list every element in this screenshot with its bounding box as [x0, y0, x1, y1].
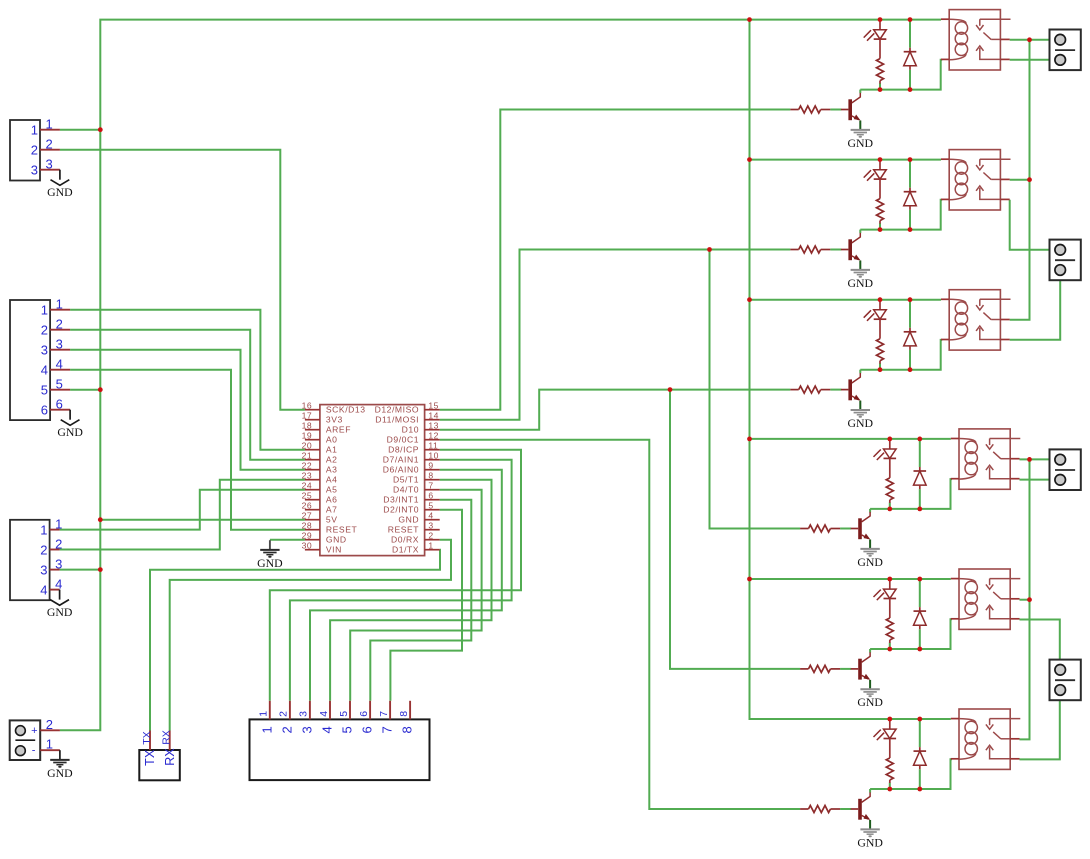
node K5 common: [1027, 597, 1032, 602]
svg-text:2: 2: [31, 143, 38, 158]
wire D9/0C1 to ch6 base row: [440, 440, 800, 809]
relay K5: [959, 569, 1010, 629]
svg-text:D7/AIN1: D7/AIN1: [383, 455, 419, 465]
connector J1 (3-pin header): [10, 120, 40, 181]
wire ch1 diode column bottom: [909, 70, 911, 90]
svg-text:4: 4: [55, 576, 62, 591]
svg-text:14: 14: [428, 410, 439, 420]
U1 right pin 14 stub: [425, 419, 440, 421]
J4 pin 3 stub: [309, 701, 311, 720]
wire ch1 emitter to ground: [859, 121, 861, 130]
wire ch6 diode column top: [919, 719, 921, 747]
X1 ground stem: [59, 750, 61, 760]
svg-text:GND: GND: [857, 835, 883, 849]
wire J3 pin1 to A5: [60, 490, 305, 530]
wire IC pin29 to GND symbol: [270, 539, 305, 541]
wire ch2 base lead gap: [830, 249, 841, 251]
wire ch4 base lead gap: [840, 528, 851, 530]
svg-text:D9/0C1: D9/0C1: [387, 435, 419, 445]
svg-text:8: 8: [400, 726, 415, 733]
svg-text:D5/T1: D5/T1: [393, 475, 419, 485]
U1 left pin 18 stub: [305, 429, 320, 431]
X1 pin 1 stub: [40, 749, 60, 751]
node +V / 5V pin27: [98, 517, 103, 522]
wire ch1 LED-resistor column bottom: [879, 83, 881, 89]
diode D15 (flyback): [919, 607, 921, 611]
wire K4 NO to terminal T3 pin2: [1020, 479, 1061, 481]
node +V rail ch4: [747, 437, 752, 442]
svg-text:1: 1: [55, 516, 62, 531]
node +V / J1 pin1: [98, 127, 103, 132]
wire ch6 junction row / coil return: [870, 759, 952, 789]
svg-text:22: 22: [302, 460, 313, 470]
node ch6 LED bottom: [887, 787, 892, 792]
wire J2 pin1 to A1: [70, 310, 305, 450]
J3 pin 1 stub: [50, 529, 60, 531]
node ch6 diode bottom: [917, 787, 922, 792]
node ch1 diode bottom: [908, 87, 913, 92]
svg-text:20: 20: [302, 440, 313, 450]
relay K4: [959, 429, 1010, 489]
svg-text:GND: GND: [326, 535, 347, 545]
wire J2 pin4 to RESET pin28: [70, 370, 305, 530]
svg-text:2: 2: [278, 711, 290, 717]
svg-text:A6: A6: [326, 495, 338, 505]
J2 pin 4 stub: [50, 369, 70, 371]
node K2 common: [1027, 177, 1032, 182]
svg-text:19: 19: [302, 430, 313, 440]
node K4 common: [1027, 457, 1032, 462]
svg-text:4: 4: [40, 582, 47, 597]
wire K2 common to rail: [1010, 179, 1030, 181]
svg-text:1: 1: [41, 303, 48, 318]
ground GND below J1: [59, 170, 61, 180]
svg-text:-: -: [32, 745, 36, 757]
ground GND for Q6 emitter: [860, 828, 879, 830]
TX pin stub: [149, 731, 151, 751]
transistor Q4: [858, 518, 862, 539]
U1 left pin 25 stub: [305, 499, 320, 501]
svg-text:1: 1: [46, 117, 53, 132]
svg-text:RX: RX: [163, 748, 177, 766]
wire K6 NO to terminal T4 pin2: [1020, 690, 1060, 760]
wire D11/MOSI to ch2 base row: [440, 250, 791, 420]
svg-text:A4: A4: [326, 475, 338, 485]
svg-text:5: 5: [56, 377, 63, 392]
connector J4 (8-pin input header): [250, 719, 430, 780]
node D10 branch: [668, 387, 673, 392]
resistor R3a (LED series): [877, 339, 884, 361]
svg-text:TX: TX: [141, 731, 153, 744]
resistor R6a (LED series): [886, 758, 893, 780]
resistor R3a bottom lead: [879, 361, 881, 364]
wire K5 common to rail: [1020, 599, 1030, 601]
node +V / J2 pin5: [98, 387, 103, 392]
wire ch1 junction row / coil return: [860, 60, 942, 90]
svg-text:A2: A2: [326, 455, 338, 465]
wire ch4 junction row / coil return: [870, 479, 952, 509]
ground GND for Q5 emitter: [860, 688, 879, 690]
U1 left pin 16 stub: [305, 409, 320, 411]
svg-text:AREF: AREF: [326, 425, 351, 435]
U1 left pin 29 stub: [305, 539, 320, 541]
svg-text:1: 1: [46, 737, 53, 752]
svg-text:29: 29: [302, 530, 313, 540]
resistor R3b (base): [790, 389, 798, 391]
U1 left pin 24 stub: [305, 489, 320, 491]
node +V / J3 pin3: [98, 567, 103, 572]
node ch3 LED bottom: [878, 367, 883, 372]
wire +V rail from battery terminal up and across top: [60, 20, 941, 731]
svg-text:23: 23: [302, 470, 313, 480]
resistor R6a bottom lead: [889, 780, 891, 783]
J2 pin 1 stub: [50, 309, 70, 311]
diode D11 (flyback): [909, 48, 911, 52]
resistor R2a bottom lead: [879, 221, 881, 224]
diode D14 (flyback): [919, 467, 921, 471]
svg-text:11: 11: [428, 440, 438, 450]
svg-text:30: 30: [302, 540, 313, 550]
svg-text:12: 12: [428, 430, 439, 440]
svg-text:GND: GND: [848, 276, 874, 290]
wire ch6 diode column bottom: [919, 769, 921, 789]
LED D2 series lead: [879, 179, 881, 199]
svg-text:2: 2: [428, 530, 433, 540]
LED D6 series lead: [889, 739, 891, 759]
node ch3 diode bottom: [908, 367, 913, 372]
J4 pin 7 stub: [389, 701, 391, 720]
svg-text:4: 4: [428, 510, 433, 520]
node ch4 LED bottom: [887, 507, 892, 512]
svg-text:GND: GND: [257, 556, 283, 570]
transistor Q1: [848, 99, 852, 120]
U1 left pin 26 stub: [305, 509, 320, 511]
svg-text:RX: RX: [161, 730, 173, 745]
U1 right pin 13 stub: [425, 429, 440, 431]
resistor R1a (LED series): [877, 59, 884, 81]
wire ch4 diode column top: [919, 439, 921, 467]
svg-text:GND: GND: [47, 766, 73, 780]
terminal T4 (relay K5/K6 output): [1050, 660, 1081, 701]
wire D12/MISO to ch1 base row: [440, 110, 791, 410]
svg-text:4: 4: [41, 363, 48, 378]
wire ch2 collector stub: [859, 230, 861, 234]
relay K1: [949, 10, 1000, 70]
wire J1 pin1 to +V rail: [60, 129, 100, 131]
wire ch1 base lead gap: [830, 109, 841, 111]
svg-text:2: 2: [41, 323, 48, 338]
svg-text:3V3: 3V3: [326, 415, 343, 425]
wire D3/INT1 to J4 pin6: [370, 500, 471, 701]
svg-text:1: 1: [40, 522, 47, 537]
svg-text:2: 2: [46, 717, 53, 732]
svg-text:5V: 5V: [326, 515, 338, 525]
svg-text:GND: GND: [848, 416, 874, 430]
svg-text:4: 4: [318, 711, 330, 717]
node ch5 diode bottom: [917, 647, 922, 652]
wire ch4 emitter to ground: [869, 540, 871, 549]
node ch2 diode bottom: [908, 227, 913, 232]
J3 pin 4 stub: [50, 589, 60, 591]
wire K1 common to terminal T1 pin1: [1010, 39, 1060, 41]
node ch2 LED top: [878, 157, 883, 162]
wire D8/ICP to J4 pin1: [270, 450, 521, 701]
svg-text:2: 2: [46, 137, 53, 152]
node ch2 LED bottom: [878, 227, 883, 232]
wire ch5 supply row: [750, 578, 951, 580]
wire D6/AIN0 to J4 pin3: [310, 470, 502, 701]
wire ch3 supply row: [750, 299, 942, 301]
svg-text:16: 16: [302, 400, 313, 410]
wire ch2 junction row / coil return: [860, 200, 942, 230]
svg-text:3: 3: [40, 562, 47, 577]
LED D5 series lead: [889, 599, 891, 619]
resistor R5a (LED series): [886, 618, 893, 640]
wire D5/T1 to J4 pin4: [330, 480, 491, 701]
transistor Q3: [848, 379, 852, 400]
transistor Q5: [858, 659, 862, 680]
relay K6: [959, 709, 1010, 769]
X1 pin 2 stub: [40, 729, 60, 731]
node +V rail ch5: [747, 577, 752, 582]
wire ch4 LED-resistor column bottom: [889, 503, 891, 509]
svg-text:1: 1: [258, 711, 270, 717]
RX pin stub: [169, 731, 171, 751]
LED D4 series lead: [889, 458, 891, 478]
wire D10 branch down to ch5 base row: [670, 390, 800, 669]
svg-text:GND: GND: [848, 136, 874, 150]
ground GND for Q1 emitter: [851, 129, 870, 131]
wire ch3 base lead gap: [830, 389, 841, 391]
U1 right pin 12 stub: [425, 439, 440, 441]
node ch1 LED top: [878, 17, 883, 22]
svg-text:+: +: [31, 725, 37, 737]
svg-text:1: 1: [56, 297, 63, 312]
svg-text:4: 4: [320, 726, 335, 733]
svg-text:8: 8: [398, 711, 410, 717]
node ch5 LED top: [887, 577, 892, 582]
U1 right pin 2 stub: [425, 539, 440, 541]
J2 pin 5 stub: [50, 389, 70, 391]
U1 right pin 15 stub: [425, 409, 440, 411]
svg-text:4: 4: [56, 357, 63, 372]
svg-text:6: 6: [56, 397, 63, 412]
svg-text:5: 5: [428, 500, 433, 510]
node ch1 LED bottom: [878, 87, 883, 92]
node +V rail ch2: [747, 157, 752, 162]
node ch4 diode bottom: [917, 507, 922, 512]
U1 left pin 28 stub: [305, 529, 320, 531]
svg-text:3: 3: [56, 337, 63, 352]
wire ch3 LED-resistor column bottom: [879, 363, 881, 369]
relay K3: [949, 290, 1000, 350]
resistor R5a bottom lead: [889, 640, 891, 643]
wire ch3 diode column top: [909, 300, 911, 328]
svg-text:D2/INT0: D2/INT0: [383, 505, 419, 515]
svg-text:6: 6: [360, 726, 375, 733]
connector J3 (4-pin header): [10, 520, 50, 600]
svg-text:3: 3: [298, 711, 310, 717]
svg-text:28: 28: [302, 520, 313, 530]
J3 pin 3 stub: [50, 569, 60, 571]
svg-text:1: 1: [259, 726, 274, 733]
node D11 branch: [707, 247, 712, 252]
ground GND for Q4 emitter: [860, 548, 879, 550]
wire ch5 junction row / coil return: [870, 619, 952, 649]
svg-text:2: 2: [40, 542, 47, 557]
wire ch5 LED-resistor column bottom: [889, 643, 891, 649]
resistor R5b (base): [800, 668, 808, 670]
U1 left pin 17 stub: [305, 419, 320, 421]
svg-text:5: 5: [338, 711, 350, 717]
svg-text:2: 2: [279, 726, 294, 733]
wire ch2 LED-resistor column bottom: [879, 223, 881, 229]
svg-text:17: 17: [302, 410, 313, 420]
wire K1 NO to terminal T1 pin2: [1010, 59, 1060, 61]
node ch6 diode top: [917, 717, 922, 722]
svg-text:8: 8: [428, 470, 433, 480]
wire ch1 diode column top: [909, 20, 911, 48]
wire ch4 supply row: [750, 438, 951, 440]
svg-text:3: 3: [428, 520, 433, 530]
U1 right pin 10 stub: [425, 459, 440, 461]
U1 right pin 9 stub: [425, 469, 440, 471]
J1 pin 2 stub: [40, 149, 60, 151]
serial module box: [139, 750, 180, 780]
U1 right pin 11 stub: [425, 449, 440, 451]
wire J3 pin2 to A4: [60, 480, 305, 550]
wire ch2 emitter to ground: [859, 261, 861, 270]
U1 left pin 19 stub: [305, 439, 320, 441]
svg-text:SCK/D13: SCK/D13: [326, 405, 366, 415]
svg-text:5: 5: [340, 726, 355, 733]
wire D2/INT0 to J4 pin7: [390, 510, 462, 701]
U1 right pin 1 stub: [425, 549, 440, 551]
svg-text:TX: TX: [143, 749, 157, 766]
wire relay commons K4-K6 vertical rail: [1020, 459, 1030, 739]
svg-text:7: 7: [428, 480, 433, 490]
J2 pin 3 stub: [50, 349, 70, 351]
ground GND below J2: [69, 410, 71, 420]
svg-text:6: 6: [358, 711, 370, 717]
wire ch6 emitter to ground: [869, 820, 871, 829]
wire D4/T0 to J4 pin5: [350, 490, 481, 701]
ground GND below X1: [50, 759, 69, 761]
svg-text:D11/MOSI: D11/MOSI: [375, 415, 419, 425]
wire ch3 collector stub: [859, 370, 861, 374]
svg-text:D4/T0: D4/T0: [393, 485, 419, 495]
terminal T1 (relay K1 output): [1050, 30, 1081, 71]
LED D3 series lead: [879, 319, 881, 339]
svg-text:27: 27: [302, 510, 313, 520]
U1 left pin 22 stub: [305, 469, 320, 471]
J4 pin 4 stub: [329, 701, 331, 720]
svg-text:7: 7: [380, 726, 395, 733]
resistor R4b (base): [800, 528, 808, 530]
svg-text:6: 6: [428, 490, 433, 500]
node ch4 diode top: [917, 437, 922, 442]
svg-text:D1/TX: D1/TX: [392, 545, 419, 555]
svg-text:24: 24: [302, 480, 313, 490]
wire ch5 base lead gap: [840, 668, 851, 670]
diode D12 (flyback): [909, 188, 911, 192]
wire ch5 collector stub: [869, 649, 871, 653]
relay K2: [949, 150, 1000, 210]
wire K4 common to terminal T3 pin1: [1020, 458, 1061, 460]
svg-text:GND: GND: [857, 555, 883, 569]
node ch2 diode top: [908, 157, 913, 162]
svg-text:3: 3: [46, 157, 53, 172]
resistor R2b (base): [790, 249, 798, 251]
wire ch5 diode column top: [919, 579, 921, 607]
wire ch3 diode column bottom: [909, 350, 911, 370]
svg-text:GND: GND: [57, 425, 83, 439]
wire K2 NO down to terminal T2 pin1: [1010, 200, 1060, 250]
U1 right pin 4 stub: [425, 519, 440, 521]
svg-text:6: 6: [41, 403, 48, 418]
svg-text:GND: GND: [857, 695, 883, 709]
power terminal X1 (screw terminal): [10, 720, 41, 760]
svg-text:RESET: RESET: [326, 525, 358, 535]
U1 left pin 27 stub: [305, 519, 320, 521]
J1 pin 1 stub: [40, 129, 60, 131]
wire ch6 collector stub: [869, 789, 871, 793]
resistor R2a (LED series): [877, 199, 884, 221]
wire ch4 collector stub: [869, 509, 871, 513]
U1 right pin 3 stub: [425, 529, 440, 531]
node K1 common: [1027, 37, 1032, 42]
U1 right pin 7 stub: [425, 489, 440, 491]
node ch6 LED top: [887, 717, 892, 722]
LED D1 series lead: [879, 39, 881, 59]
wire J3 pin3 to +V rail: [60, 569, 101, 571]
U1 left pin 23 stub: [305, 479, 320, 481]
LED D4 (opto indicator): [889, 439, 891, 449]
U1 right pin 6 stub: [425, 499, 440, 501]
resistor R6b (base): [800, 808, 808, 810]
J4 pin 8 stub: [409, 701, 411, 720]
J4 pin 1 stub: [269, 701, 271, 720]
J4 pin 6 stub: [369, 701, 371, 720]
ground GND for U1 pin29: [269, 540, 271, 549]
wire ch6 base lead gap: [840, 808, 851, 810]
wire K5 NO to terminal T4 pin1: [1020, 620, 1060, 670]
svg-text:3: 3: [31, 163, 38, 178]
wire ch5 emitter to ground: [869, 680, 871, 689]
connector J2 (6-pin header): [10, 300, 50, 420]
resistor R1a bottom lead: [879, 81, 881, 84]
wire +V rail to IC 5V pin27: [100, 519, 305, 521]
U1 left pin 20 stub: [305, 449, 320, 451]
node ch3 LED top: [878, 297, 883, 302]
svg-text:GND: GND: [398, 515, 419, 525]
LED D2 (opto indicator): [879, 160, 881, 170]
svg-text:D6/AIN0: D6/AIN0: [383, 465, 419, 475]
node ch1 diode top: [908, 17, 913, 22]
svg-text:15: 15: [428, 400, 439, 410]
U1 right pin 8 stub: [425, 479, 440, 481]
svg-text:D8/ICP: D8/ICP: [388, 445, 419, 455]
wire T2 pin2 down to K3 NO: [1010, 270, 1060, 340]
svg-text:VIN: VIN: [326, 545, 342, 555]
svg-text:A1: A1: [326, 445, 338, 455]
wire J2 pin2 to A2: [70, 330, 305, 460]
wire D0/RX to RX module: [170, 540, 451, 731]
terminal T3 (relay K4 output): [1050, 449, 1081, 490]
wire D10 to ch3 base row: [440, 390, 791, 430]
J3 pin 2 stub: [50, 549, 60, 551]
ground GND below J3: [59, 590, 61, 600]
